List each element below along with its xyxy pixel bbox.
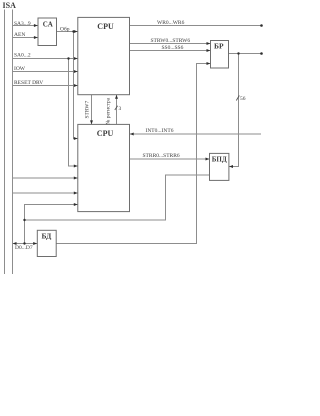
svg-text:№ регистра: № регистра — [105, 97, 111, 125]
svg-text:CPU: CPU — [97, 22, 114, 31]
svg-text:SA3...9: SA3...9 — [14, 21, 31, 27]
wire WR0..WR6 — [130, 25, 262, 27]
arrow up into CPU1 bottom (reg number) — [115, 95, 118, 99]
svg-text:IOW: IOW — [14, 66, 26, 72]
wire D0..D7 — [13, 243, 38, 245]
svg-text:WR0...WR6: WR0...WR6 — [157, 20, 185, 26]
wire select branch down to CPU2 — [74, 32, 78, 139]
svg-text:SA0...2: SA0...2 — [14, 53, 31, 59]
arrow into BR (data) — [207, 62, 211, 65]
arrow left into BPD right (56 lines) — [229, 165, 233, 168]
arrow into CPU1 (SA0..2) — [74, 57, 78, 60]
arrow into CPU2 (SA0..2) — [74, 165, 78, 168]
arrow into CPU1 (select) — [74, 30, 78, 33]
block BPD data transfer unit — [210, 153, 229, 180]
wire CA select to CPU1 — [57, 31, 78, 33]
wire data branch to BPD — [25, 175, 210, 220]
ISA bus line 1 — [4, 10, 6, 274]
svg-text:ISA: ISA — [3, 1, 17, 10]
wire SA0..2 — [13, 58, 78, 60]
arrow into CPU2 (select) — [74, 137, 78, 140]
wire STRW0..STRW6 — [130, 43, 211, 45]
wire INT0..INT6 — [130, 133, 262, 135]
wire BD to BR input — [57, 64, 211, 244]
junction dot CA line — [72, 30, 74, 32]
end dot BR output line — [260, 52, 263, 55]
wire AEN — [13, 37, 38, 39]
wire SS0..SS6 — [130, 50, 211, 52]
svg-text:Обр: Обр — [60, 25, 70, 32]
arrow into CPU1 (IOW) — [74, 70, 78, 73]
junction dot data vertical at D line — [23, 242, 25, 244]
svg-text:CPU: CPU — [97, 129, 114, 138]
arrow into CPU2 (data) — [74, 203, 78, 206]
arrow down into CPU2 top (STRW7) — [90, 120, 93, 124]
svg-text:STRW0...STRW6: STRW0...STRW6 — [151, 38, 191, 44]
junction dot BR output — [237, 52, 239, 54]
block CPU2 — [78, 124, 130, 211]
wire IOW — [13, 71, 78, 73]
svg-text:БПД: БПД — [212, 156, 227, 164]
svg-text:RESET DRV: RESET DRV — [14, 80, 43, 86]
label 3 with slash — [115, 106, 118, 110]
wire bus to CPU2 input 4 — [13, 192, 78, 194]
svg-text:STRR0...STRR6: STRR0...STRR6 — [143, 153, 180, 159]
wire BR output down to BPD — [229, 54, 239, 167]
block CPU1 — [78, 17, 130, 94]
wire STRW7 between CPUs — [91, 95, 93, 125]
junction dot data vertical at y220 — [23, 219, 25, 221]
wire BR output — [229, 53, 262, 55]
wire bus to CPU2 input 3 — [13, 177, 78, 179]
block BD data buffer — [37, 230, 56, 256]
arrow into CPU2 (bus 4) — [74, 192, 78, 195]
arrow D0..D7 right into BD — [33, 242, 37, 245]
svg-text:CA: CA — [43, 21, 53, 29]
arrow left into CPU2 right (INT) — [130, 133, 134, 136]
block BR buffer register — [211, 41, 229, 69]
svg-text:БД: БД — [42, 231, 53, 240]
arrow into CPU1 (RESET DRV) — [74, 84, 78, 87]
svg-text:INT0...INT6: INT0...INT6 — [146, 128, 174, 134]
wire SA3..9 — [13, 25, 38, 27]
label 56 with slash — [236, 96, 239, 101]
svg-text:3: 3 — [119, 106, 122, 112]
arrow into BR (SS) — [207, 49, 211, 52]
svg-text:SS0...SS6: SS0...SS6 — [162, 45, 184, 51]
wire register number between CPUs — [116, 95, 118, 125]
svg-text:БР: БР — [214, 41, 224, 50]
wire data to CPU2 — [25, 205, 78, 244]
arrow into BR (STRW) — [207, 42, 211, 45]
svg-text:56: 56 — [240, 96, 246, 102]
arrow into CPU2 (bus 3) — [74, 177, 78, 180]
ISA bus line 2 — [12, 10, 14, 274]
end dot WR line — [260, 24, 263, 27]
arrow into CA (SA3..9) — [34, 24, 38, 27]
wire SA0..2 branch down to CPU2 — [69, 59, 78, 167]
arrow D0..D7 left into bus — [13, 242, 17, 245]
block CA address selector — [38, 18, 57, 46]
svg-text:STRW7: STRW7 — [85, 101, 91, 119]
svg-text:AEN: AEN — [14, 32, 25, 38]
arrow into BPD left (STRR) — [206, 158, 210, 161]
arrow into CA (AEN) — [34, 36, 38, 39]
wire STRR0..STRR6 — [130, 158, 210, 160]
junction dot SA0..2 — [67, 57, 69, 59]
svg-text:D0...D7: D0...D7 — [15, 245, 33, 251]
wire RESET DRV — [13, 85, 78, 87]
